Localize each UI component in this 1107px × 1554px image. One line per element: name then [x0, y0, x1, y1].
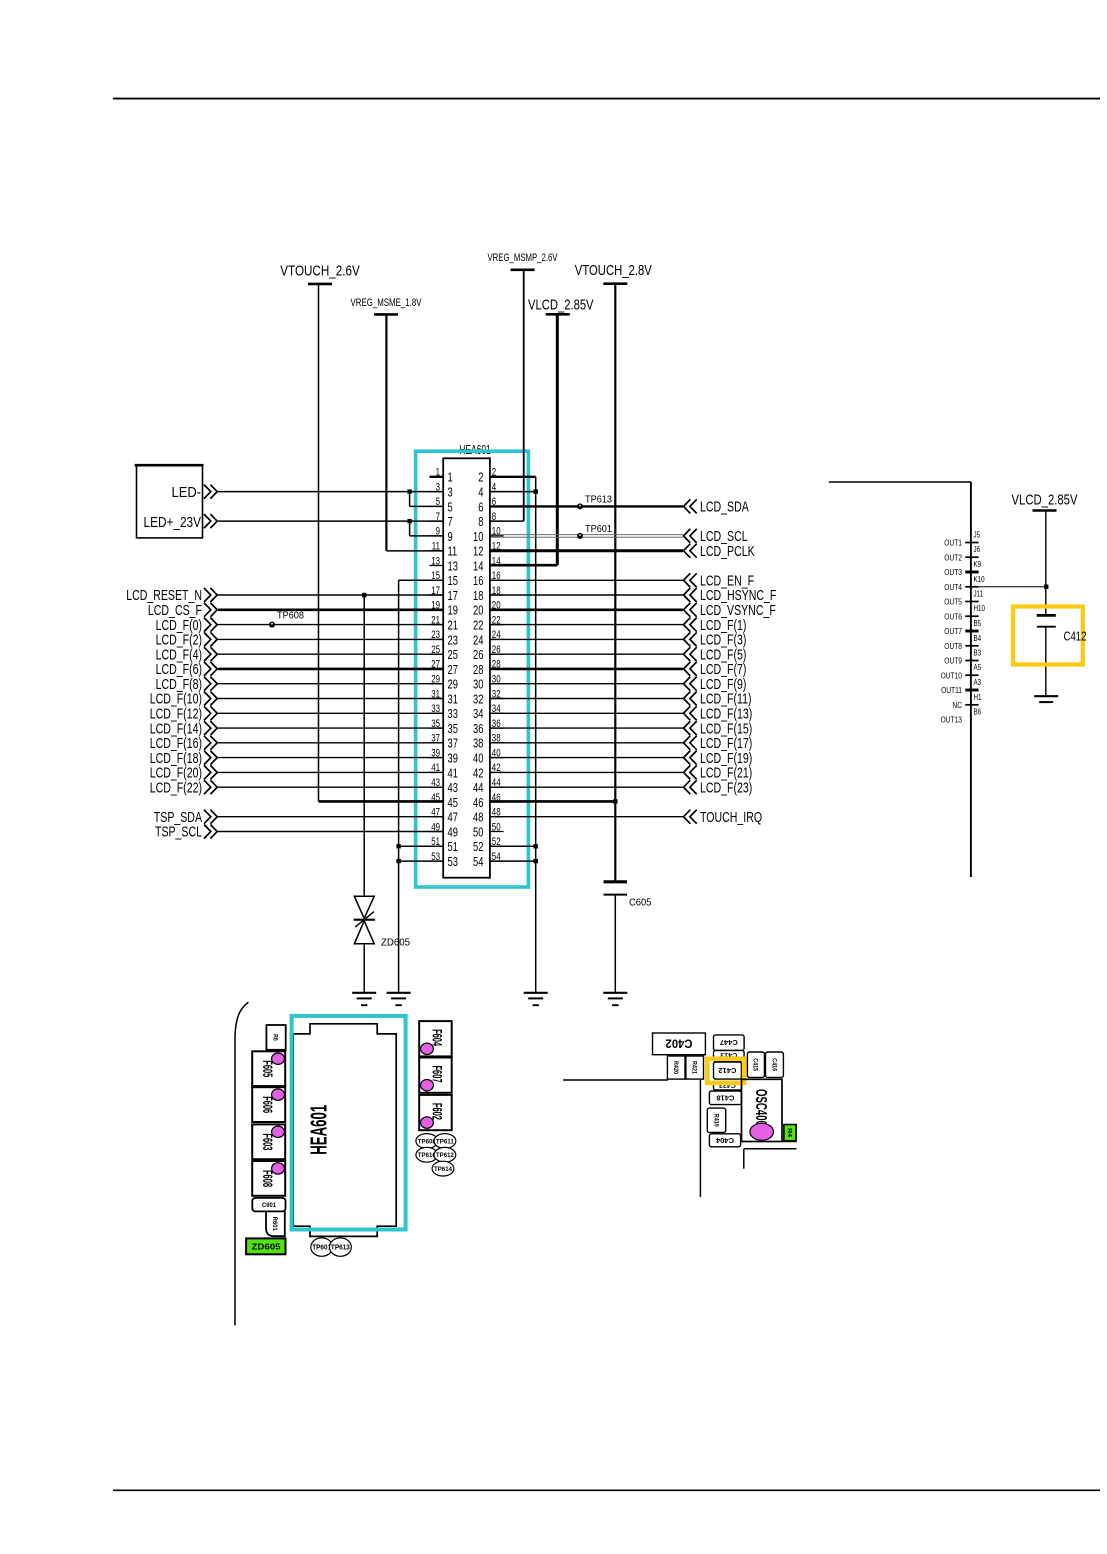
capacitor C605 [604, 882, 652, 993]
capacitor C412 [1037, 615, 1056, 696]
svg-text:21: 21 [448, 618, 458, 633]
svg-text:C412: C412 [718, 1066, 736, 1073]
svg-text:47: 47 [448, 810, 458, 825]
connector HEA601 footprint name [306, 1105, 332, 1155]
wire LCD_F(18) [150, 750, 444, 767]
wire LCD_F(23) [490, 779, 752, 796]
HEA601 pins 41/42 [430, 762, 504, 780]
part F608 [252, 1161, 285, 1196]
svg-text:38: 38 [492, 733, 501, 745]
HEA601 pins 39/40 [430, 747, 504, 765]
ground (pins 15/51/53) [387, 993, 411, 1005]
wire TSP_SCL [155, 824, 443, 841]
wire pin 46 to VTOUCH_2.8V [490, 800, 615, 803]
svg-text:C447: C447 [720, 1038, 738, 1045]
bottom rule [113, 1489, 1100, 1491]
svg-text:TP608: TP608 [277, 610, 304, 622]
svg-text:J5: J5 [974, 531, 981, 540]
svg-text:H10: H10 [974, 604, 986, 613]
wire VREG_MSME_1.8V to pin 11 [386, 314, 443, 551]
svg-text:F602: F602 [430, 1103, 446, 1120]
part OSC400 [742, 1079, 783, 1141]
svg-text:22: 22 [473, 618, 483, 633]
IC pin H1 NC [952, 693, 982, 710]
power flag VREG_MSME_1.8V [351, 297, 422, 314]
IC boundary (right) [829, 482, 971, 877]
wire LCD_F(0) [156, 617, 444, 634]
wire LCD_F(8) [156, 676, 444, 693]
svg-text:OUT10: OUT10 [941, 670, 963, 680]
part C447 [714, 1035, 745, 1051]
HEA601 pins 7/8 [430, 511, 504, 529]
svg-text:TP601: TP601 [312, 1243, 331, 1252]
part C418 [709, 1091, 741, 1105]
svg-text:VLCD_2.85V: VLCD_2.85V [528, 297, 594, 314]
junction LCD_RESET_N / ZD605 [362, 593, 366, 597]
svg-text:2: 2 [478, 470, 483, 485]
HEA601 pins 37/38 [430, 733, 504, 751]
svg-text:C416: C416 [770, 1058, 776, 1072]
IC pin A3 OUT11 [941, 678, 981, 695]
board trace vertical (middle) [699, 1080, 701, 1197]
svg-text:VTOUCH_2.8V: VTOUCH_2.8V [575, 262, 652, 279]
svg-text:49: 49 [448, 824, 458, 839]
IC pin B3 OUT9 [944, 649, 981, 666]
junction VTOUCH_2.8V / pin 46 [613, 799, 617, 803]
svg-text:35: 35 [448, 721, 458, 736]
wire LCD_F(10) [150, 691, 444, 708]
svg-text:52: 52 [473, 839, 483, 854]
top rule [113, 98, 1100, 100]
svg-text:50: 50 [473, 824, 483, 839]
test point pad TP612 [434, 1147, 456, 1162]
part C416 [766, 1052, 784, 1077]
part F605 [252, 1051, 285, 1086]
svg-text:9: 9 [436, 526, 440, 538]
junction pin 4 [534, 489, 538, 493]
junction LED+_23V [407, 519, 411, 523]
svg-text:25: 25 [431, 644, 440, 656]
svg-text:25: 25 [448, 647, 458, 662]
svg-text:LCD_F(22): LCD_F(22) [150, 779, 202, 796]
svg-text:OUT2: OUT2 [944, 552, 962, 562]
part C412 (layout) [714, 1062, 742, 1079]
svg-text:C601: C601 [262, 1203, 277, 1209]
HEA601 pins 35/36 [430, 718, 504, 736]
svg-text:15: 15 [431, 570, 440, 582]
svg-text:14: 14 [492, 555, 501, 567]
svg-text:27: 27 [431, 659, 440, 671]
svg-text:R410: R410 [712, 1114, 718, 1128]
svg-text:LCD_PCLK: LCD_PCLK [700, 543, 755, 560]
svg-text:42: 42 [473, 765, 483, 780]
wire LCD_F(17) [490, 735, 752, 752]
connector HEA601 body [443, 458, 490, 877]
svg-text:54: 54 [492, 851, 501, 863]
node LED+_23V [204, 514, 217, 528]
svg-text:HEA601: HEA601 [306, 1105, 332, 1155]
node LED- [204, 485, 217, 499]
IC pin J5 OUT1 [944, 531, 980, 548]
wire TOUCH_IRQ [490, 809, 762, 826]
svg-text:19: 19 [448, 603, 458, 618]
IC pin B5 OUT7 [944, 619, 981, 636]
HEA601 pins 9/10 [430, 526, 504, 544]
IC pin J11 OUT5 [944, 590, 983, 607]
power flag VTOUCH_2.6V [280, 262, 360, 284]
wire pins 2,4,52,54 to ground [490, 477, 536, 993]
svg-text:C418: C418 [716, 1093, 734, 1100]
svg-text:R421: R421 [691, 1061, 697, 1075]
svg-text:24: 24 [492, 629, 501, 641]
part F604 [419, 1021, 452, 1056]
HEA601 pins 25/26 [430, 644, 504, 662]
svg-text:12: 12 [473, 544, 483, 559]
HEA601 pins 1/2 [430, 467, 504, 485]
svg-text:31: 31 [431, 688, 440, 700]
test point pad TP613 (bottom) [330, 1238, 352, 1256]
svg-text:28: 28 [473, 662, 483, 677]
svg-text:51: 51 [448, 839, 458, 854]
wire LCD_F(1) [490, 617, 747, 634]
svg-text:9: 9 [448, 529, 453, 544]
wire LCD_F(21) [490, 765, 752, 782]
HEA601 pins 5/6 [430, 496, 504, 514]
svg-text:B4: B4 [974, 634, 982, 643]
svg-text:B5: B5 [974, 619, 982, 628]
svg-text:46: 46 [492, 792, 501, 804]
svg-text:50: 50 [492, 821, 501, 833]
svg-text:OUT7: OUT7 [944, 626, 962, 636]
svg-text:31: 31 [448, 691, 458, 706]
svg-text:3: 3 [448, 485, 453, 500]
ground (ZD605) [352, 993, 376, 1005]
svg-text:OUT13: OUT13 [941, 715, 963, 725]
ground (C605) [603, 993, 627, 1005]
part C423 [714, 1081, 742, 1090]
part C402 [653, 1033, 706, 1055]
svg-text:41: 41 [448, 765, 458, 780]
svg-text:C412: C412 [1064, 629, 1087, 643]
part F603 [252, 1124, 285, 1159]
svg-text:1: 1 [448, 470, 453, 485]
IC pin K9 OUT3 [944, 560, 981, 577]
svg-text:41: 41 [431, 762, 440, 774]
zener diode ZD605 [354, 896, 411, 993]
wire VLCD_2.85V to C412 [1045, 511, 1047, 616]
label C412 [1064, 629, 1087, 643]
highlight box HEA601 footprint [292, 1016, 406, 1230]
IC pin B6 OUT13 [941, 708, 982, 725]
svg-text:37: 37 [448, 736, 458, 751]
svg-text:44: 44 [473, 780, 483, 795]
svg-text:OUT1: OUT1 [944, 538, 962, 548]
board trace (middle) [563, 1079, 668, 1081]
svg-text:C402: C402 [666, 1037, 693, 1049]
HEA601 pins 47/48 [430, 807, 504, 825]
svg-text:33: 33 [431, 703, 440, 715]
svg-text:11: 11 [432, 541, 440, 553]
svg-text:39: 39 [448, 751, 458, 766]
svg-text:A5: A5 [974, 663, 982, 672]
svg-text:28: 28 [492, 659, 501, 671]
svg-text:20: 20 [492, 600, 501, 612]
wire LCD_HSYNC_F [490, 587, 777, 604]
connector HEA601 name [459, 443, 491, 457]
svg-text:45: 45 [431, 792, 440, 804]
junction OUT4/VLCD [1044, 585, 1048, 589]
svg-text:54: 54 [473, 854, 483, 869]
svg-text:48: 48 [492, 807, 501, 819]
part C415 [747, 1052, 764, 1077]
svg-text:OUT4: OUT4 [944, 582, 962, 592]
test point pad TP601 [311, 1238, 333, 1256]
svg-text:TP611: TP611 [436, 1138, 454, 1145]
junction pin 52 [534, 844, 538, 848]
IC pin B4 OUT8 [944, 634, 981, 651]
junction LED- [407, 489, 411, 493]
svg-text:6: 6 [478, 499, 483, 514]
svg-text:43: 43 [448, 780, 458, 795]
svg-text:22: 22 [492, 614, 501, 626]
HEA601 pins 21/22 [430, 614, 504, 632]
svg-text:13: 13 [448, 558, 458, 573]
svg-text:LCD_F(23): LCD_F(23) [700, 779, 752, 796]
svg-text:3: 3 [436, 481, 440, 493]
wire LCD_CS_F [148, 602, 443, 619]
svg-text:7: 7 [448, 514, 453, 529]
highlight box HEA601 [416, 451, 529, 887]
svg-text:40: 40 [473, 751, 483, 766]
svg-text:TSP_SCL: TSP_SCL [155, 824, 202, 841]
HEA601 pins 23/24 [430, 629, 504, 647]
svg-text:H1: H1 [974, 693, 982, 702]
wire LCD_EN_F [490, 573, 754, 590]
HEA601 pins 27/28 [430, 659, 504, 677]
svg-text:26: 26 [492, 644, 501, 656]
svg-text:26: 26 [473, 647, 483, 662]
svg-text:36: 36 [492, 718, 501, 730]
test point TP601 [577, 523, 612, 539]
highlight box C412 (layout) [707, 1059, 744, 1083]
svg-text:VREG_MSMP_2.6V: VREG_MSMP_2.6V [488, 252, 558, 264]
svg-text:10: 10 [473, 529, 483, 544]
svg-text:NC: NC [952, 700, 962, 710]
wire LED- to pins 3,5 [218, 492, 443, 507]
svg-text:38: 38 [473, 736, 483, 751]
HEA601 pins 3/4 [430, 481, 504, 499]
svg-text:5: 5 [448, 499, 453, 514]
svg-text:33: 33 [448, 706, 458, 721]
wire pins 15,51,53 to ground [399, 580, 444, 993]
svg-text:2: 2 [492, 467, 496, 479]
IC pin H10 OUT6 [944, 604, 985, 621]
HEA601 pins 33/34 [430, 703, 504, 721]
svg-text:TP608: TP608 [418, 1138, 436, 1145]
svg-text:12: 12 [492, 541, 501, 553]
part R410 [707, 1108, 725, 1132]
svg-text:A3: A3 [974, 678, 982, 687]
IC pin A5 OUT10 [941, 663, 982, 680]
power flag VREG_MSMP_2.6V [488, 252, 558, 270]
svg-text:C404: C404 [716, 1136, 734, 1143]
svg-text:J6: J6 [974, 545, 981, 554]
svg-text:R4: R4 [786, 1128, 792, 1138]
svg-text:1: 1 [436, 467, 440, 479]
test point pad TP608 [416, 1134, 438, 1149]
svg-text:ZD605: ZD605 [381, 937, 410, 949]
svg-text:10: 10 [492, 526, 501, 538]
HEA601 pins 49/50 [430, 821, 504, 839]
svg-text:21: 21 [431, 614, 440, 626]
wire OUT4 to C412 [979, 586, 1047, 588]
svg-text:5: 5 [436, 496, 440, 508]
svg-text:23: 23 [431, 629, 440, 641]
svg-text:VREG_MSME_1.8V: VREG_MSME_1.8V [351, 297, 422, 309]
svg-text:40: 40 [492, 747, 501, 759]
svg-text:TP612: TP612 [436, 1152, 454, 1159]
svg-text:18: 18 [473, 588, 483, 603]
svg-text:47: 47 [431, 807, 440, 819]
part R6 (top small box) [266, 1025, 285, 1050]
power flag VLCD_2.85V (right) [1012, 492, 1078, 511]
HEA601 pins 13/14 [430, 555, 504, 573]
svg-text:C605: C605 [629, 897, 652, 909]
IC pin K10 OUT4 [944, 575, 985, 592]
part R400 (green) [784, 1125, 796, 1141]
part R421 [686, 1056, 704, 1079]
svg-text:46: 46 [473, 795, 483, 810]
wire LCD_F(5) [490, 646, 747, 663]
part R601 [266, 1211, 285, 1236]
svg-text:39: 39 [431, 747, 440, 759]
highlight box C412 [1013, 607, 1083, 665]
svg-text:42: 42 [492, 762, 501, 774]
wire LCD_F(12) [150, 706, 444, 723]
wire LCD_F(22) [150, 779, 444, 796]
svg-text:J11: J11 [974, 590, 984, 599]
wire LCD_VSYNC_F [490, 602, 776, 619]
svg-text:13: 13 [431, 555, 440, 567]
svg-text:16: 16 [492, 570, 501, 582]
svg-text:TP614: TP614 [434, 1166, 452, 1173]
svg-text:48: 48 [473, 810, 483, 825]
part C413 [714, 1050, 745, 1061]
test point TP613 [577, 494, 612, 510]
power flag VLCD_2.85V [528, 297, 594, 315]
svg-text:37: 37 [431, 733, 440, 745]
HEA601 pins 19/20 [430, 600, 504, 618]
test point pad TP610 [416, 1147, 438, 1162]
wire LCD_PCLK [490, 543, 755, 560]
svg-text:K10: K10 [974, 575, 986, 584]
svg-text:TP610: TP610 [418, 1152, 436, 1159]
svg-text:ZD605: ZD605 [252, 1242, 281, 1252]
wire LCD_SDA [490, 499, 749, 516]
part R420 [667, 1056, 685, 1079]
connector HEA601 footprint outline [293, 1024, 396, 1237]
board trace (OSC400 bottom) [782, 1141, 797, 1143]
svg-text:8: 8 [492, 511, 496, 523]
svg-text:R601: R601 [271, 1217, 278, 1231]
svg-text:OUT6: OUT6 [944, 611, 962, 621]
power flag VTOUCH_2.8V [575, 262, 652, 284]
svg-text:LED+_23V: LED+_23V [144, 514, 202, 531]
svg-text:15: 15 [448, 573, 458, 588]
svg-text:C415: C415 [752, 1058, 758, 1072]
board outline (left) [235, 1002, 248, 1325]
svg-text:OUT3: OUT3 [944, 567, 962, 577]
svg-text:19: 19 [431, 600, 440, 612]
svg-text:16: 16 [473, 573, 483, 588]
part F607 [419, 1058, 452, 1093]
part C601 [252, 1198, 285, 1212]
svg-text:B3: B3 [974, 649, 982, 658]
svg-text:OUT11: OUT11 [941, 685, 962, 695]
svg-text:30: 30 [473, 677, 483, 692]
svg-text:TP613: TP613 [585, 494, 612, 506]
svg-text:TP601: TP601 [585, 523, 612, 535]
svg-text:29: 29 [431, 674, 440, 686]
wire LCD_F(2) [156, 632, 444, 649]
svg-text:30: 30 [492, 674, 501, 686]
svg-text:F607: F607 [430, 1066, 446, 1083]
svg-text:LED-: LED- [172, 484, 202, 501]
svg-text:R420: R420 [672, 1061, 678, 1075]
svg-text:36: 36 [473, 721, 483, 736]
svg-text:20: 20 [473, 603, 483, 618]
HEA601 pins 15/16 [430, 570, 504, 588]
svg-text:45: 45 [448, 795, 458, 810]
wire LCD_F(4) [156, 646, 444, 663]
svg-text:TP613: TP613 [331, 1243, 350, 1252]
part F606 [252, 1087, 285, 1122]
wire LCD_F(20) [150, 765, 444, 782]
wire VTOUCH_2.6V to pin 45 [319, 284, 444, 802]
test point TP608 [269, 610, 304, 628]
HEA601 pins 31/32 [430, 688, 504, 706]
junction pin 53 [396, 859, 400, 863]
svg-text:OUT5: OUT5 [944, 597, 962, 607]
LED connector box [135, 465, 204, 538]
svg-text:18: 18 [492, 585, 501, 597]
HEA601 pins 53/54 [430, 851, 504, 869]
wire LCD_F(15) [490, 720, 752, 737]
svg-text:35: 35 [431, 718, 440, 730]
svg-text:32: 32 [492, 688, 501, 700]
board trace (below OSC400) [744, 1149, 797, 1169]
wire LCD_F(11) [490, 691, 752, 708]
wire LCD_F(6) [156, 661, 444, 678]
svg-text:8: 8 [478, 514, 483, 529]
svg-text:53: 53 [431, 851, 440, 863]
wire LCD_SCL [490, 528, 748, 545]
svg-text:29: 29 [448, 677, 458, 692]
ground (C412) [1034, 696, 1058, 702]
wire LCD_F(7) [490, 661, 747, 678]
junction pin 54 [534, 859, 538, 863]
svg-text:OSC400: OSC400 [752, 1089, 769, 1126]
svg-text:53: 53 [448, 854, 458, 869]
svg-text:43: 43 [431, 777, 440, 789]
test point pad TP611 [434, 1134, 456, 1149]
wire TSP_SDA [154, 809, 443, 826]
svg-text:4: 4 [492, 481, 496, 493]
svg-text:VLCD_2.85V: VLCD_2.85V [1012, 492, 1078, 509]
HEA601 pins 29/30 [430, 674, 504, 692]
svg-text:49: 49 [431, 821, 440, 833]
wire VTOUCH_2.8V down to C605 [614, 284, 616, 881]
